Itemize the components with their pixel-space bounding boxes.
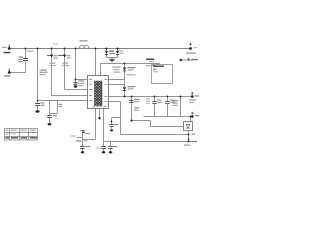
label D3 [128,67,136,68]
capacitor C12 [108,142,112,152]
transistor Q2 branch [58,49,88,90]
wire to U2 cathode [190,117,192,122]
node D3 top [124,63,126,65]
terminal J1 pin2 [8,71,11,74]
node U2 anode junction [188,134,190,136]
label R5 C9 [134,99,140,100]
IC bottom pin S2 [99,109,101,118]
junction dots top bus [25,48,27,50]
test point TP2 [180,59,196,61]
transistor Q1 branch [47,49,88,96]
wire output rail VOUT+ [109,96,193,98]
diode D2 [116,51,119,54]
label C12 [113,146,118,147]
label C10 [114,124,119,125]
node U2 top [190,116,192,118]
diode D2 leads [117,49,119,58]
IC bottom pin S1 [83,109,96,140]
node C5 junction [75,79,77,81]
text smudges [2,40,199,148]
label VOUT+ [195,95,200,96]
RC snubber R5 C9 [129,97,133,121]
resistor R6 [180,97,182,117]
ground GND6 [109,151,113,153]
label TP1 [186,53,196,54]
ferrite bead FB1 [80,45,89,48]
label above bus [53,43,58,44]
wire diode common [107,57,118,59]
diode D3 [123,68,126,71]
label right pins [127,74,136,75]
label C2 [40,102,44,103]
wire feedback lower [121,134,189,136]
wire FB branch [112,117,121,119]
note box T1 [152,65,173,84]
wire IC right pin1 [109,79,125,81]
terminal J1 pin1 [8,47,11,50]
shunt regulator U2 symbol [186,124,191,128]
transistor Q2 dot [63,55,66,58]
label VIN+ [4,52,11,54]
label C6 left [146,98,150,99]
label FB1 [80,40,88,41]
capacitor C1 [23,49,28,73]
node BP junction [37,100,39,102]
IC pin stubs right [105,79,108,80]
label R6 [172,100,178,101]
label net1 [27,51,33,52]
node RC bottom [130,119,132,121]
label Q1 [54,55,58,56]
node C8 polarity dot [83,131,85,133]
ground for D1 D2 [109,59,115,61]
node S2 via [98,117,100,119]
label C5 [78,80,84,81]
pin mark VOUT- [191,112,194,115]
IC pin stubs left [89,79,92,80]
label C8 [85,133,90,134]
IC bottom pin GND [103,109,105,147]
wire IC right pin FB [109,102,121,135]
wire stub net GND [77,137,83,139]
label VOUT- [195,115,200,116]
label C6 [157,100,162,101]
box text [149,61,154,62]
wire bottom rail [104,141,197,143]
resistor branch R3 [50,101,58,114]
wire IC top pin FWD [101,64,161,76]
label R3 [59,104,63,105]
terminal TP1 [189,47,192,50]
wire U2 anode [188,131,190,142]
wire IC top pin D [95,49,97,76]
pin mark TP2 [187,58,190,61]
wire to opto [132,121,184,127]
label VIN- [4,75,11,76]
diode D3 D4 chain [124,64,126,97]
table text [6,130,9,131]
ground GND3 [74,85,78,87]
wire IC right pin2 [109,84,125,86]
capacitor C7 [165,97,169,117]
label RTN [184,145,190,146]
capacitor C6 [152,97,156,117]
label C7 [170,100,175,101]
junction dots output rail [124,96,126,98]
ground GND7 [110,129,113,131]
capacitor C10 [109,118,113,129]
label Q2 [67,55,71,56]
capacitor C11 [101,147,105,152]
terminal VOUT+ [191,95,194,98]
IC pin stubs bottom [93,106,96,107]
ground GND1 [35,110,39,113]
capacitor C5 branch [74,49,88,86]
pin mark RTN [187,138,190,141]
wire VIN- [9,72,26,74]
capacitor C8 bypass stack [80,131,84,152]
capacitor C4 [47,101,51,123]
terminal end mark bottom rail [195,141,197,143]
label D1 D2 [109,51,114,52]
label C1 [19,57,24,58]
IC U1 body [88,76,109,109]
ground GND5 [102,151,106,153]
label R2 net [40,69,48,70]
wire top bus [9,48,191,50]
label C4 [53,115,58,116]
shunt regulator U2 box [184,122,193,131]
capacitor C2 branch [35,49,40,111]
terminal VOUT- [191,115,194,118]
IC U1 thermal pad [95,81,103,106]
label C11 [97,148,101,149]
ground GND2 [48,123,52,125]
pin mark TP1 [189,43,192,46]
node C10 top [111,121,113,123]
pin mark VOUT+ [191,92,194,95]
wire output rail VOUT- [144,116,193,118]
node bottom rail junction [188,141,190,143]
diode D1 leads [106,49,108,58]
ground GND4 [81,151,85,153]
label net2 [113,67,121,68]
label TP2 [192,59,199,60]
transistor Q1 dot [50,55,53,58]
table revision block [5,129,38,141]
terminal crosses [187,43,194,141]
label wire63 [146,59,154,61]
diode D4 [123,87,126,90]
wire to IC pin BP [38,100,88,102]
label D4 [128,86,136,87]
diode D1 [105,51,108,54]
